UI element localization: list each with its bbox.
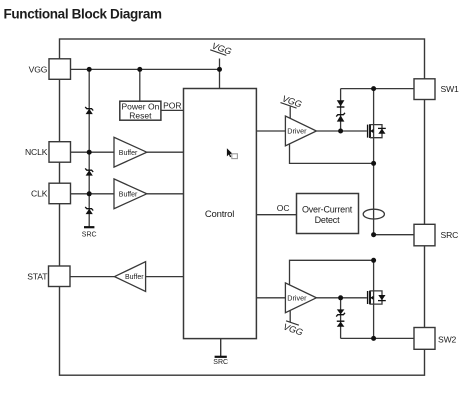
wire bottom clamp diode branch [340, 298, 342, 339]
svg-text:SRC: SRC [213, 359, 228, 366]
wire Control to buffer B3 [146, 276, 184, 278]
wire CLK to buffer B2 [71, 193, 115, 195]
svg-text:Detect: Detect [315, 215, 341, 225]
svg-text:CLK: CLK [31, 189, 48, 199]
wire D2 output to Q2 gate [316, 297, 367, 299]
svg-text:VGG: VGG [282, 322, 304, 338]
svg-text:SRC: SRC [441, 230, 459, 240]
svg-text:NCLK: NCLK [25, 147, 48, 157]
wire POR line [161, 109, 184, 111]
node SW2 rail junction [371, 336, 376, 341]
wire left zener chain vertical [88, 69, 90, 227]
svg-text:SW1: SW1 [441, 84, 460, 94]
zener Z1 [85, 107, 93, 114]
buffer B3 [115, 262, 146, 292]
node SW1 rail junction [371, 86, 376, 91]
node SRC rail junction [371, 232, 376, 237]
wire D2 feedback to source rail [290, 260, 374, 284]
svg-text:Buffer: Buffer [119, 191, 138, 198]
node CLK-zener junction [87, 191, 92, 196]
node D2 gate clamp junction [338, 295, 343, 300]
diode D4 bottom clamp lower [337, 321, 345, 327]
power-on-reset U2 [120, 101, 161, 120]
net VGG label above D1 [280, 93, 303, 109]
wire POR box stub [139, 69, 141, 101]
pin SRC [414, 224, 458, 246]
current sensor ellipse [363, 209, 384, 219]
svg-text:Control: Control [205, 209, 234, 220]
wire Q2 source-drain vertical [373, 260, 375, 338]
wire SW2 rail [341, 337, 415, 339]
net VGG label below D2 [282, 321, 305, 338]
svg-text:Over-Current: Over-Current [302, 204, 353, 214]
ground SRC under control [213, 339, 228, 366]
node D1 gate clamp junction [338, 129, 343, 134]
wire VGG stub below D2 [289, 311, 291, 322]
wire NCLK to buffer B1 [71, 151, 115, 153]
node VGG label junction [217, 67, 222, 72]
wire Control to driver D2 input [256, 297, 285, 299]
wire VGG label stub to Control [219, 59, 221, 89]
svg-text:SW2: SW2 [438, 334, 457, 344]
node NCLK-zener junction [87, 150, 92, 155]
over-current detect U3 [297, 194, 359, 234]
node VGG-POR junction [137, 67, 142, 72]
chip boundary frame [60, 39, 425, 375]
wire VGG net horizontal [71, 68, 220, 70]
wire Control to driver D1 input [256, 130, 285, 132]
svg-text:Functional Block Diagram: Functional Block Diagram [4, 7, 162, 22]
zener Z3 [85, 207, 93, 214]
driver D2 [285, 283, 316, 313]
svg-text:Buffer: Buffer [119, 150, 138, 157]
svg-text:Driver: Driver [287, 293, 307, 302]
pin VGG [29, 59, 71, 80]
wire VGG stub above D1 [289, 107, 291, 119]
wire top clamp diode branch [340, 89, 342, 131]
zener Z5 bottom clamp upper [336, 309, 345, 316]
svg-text:POR: POR [163, 101, 181, 111]
zener Z4 top clamp lower [336, 113, 345, 122]
pin STAT [27, 266, 70, 287]
svg-text:STAT: STAT [27, 272, 48, 282]
buffer B1 [114, 137, 147, 167]
wire Q1 drain-source vertical [373, 89, 375, 235]
node Q2 source junction [371, 258, 376, 263]
wire OC line Control to Over-Current Detect [256, 214, 296, 216]
pin NCLK [25, 142, 71, 163]
buffer B2 [114, 179, 147, 209]
wire B2 output to Control [147, 193, 184, 195]
control block U1 [184, 89, 257, 339]
svg-text:VGG: VGG [29, 64, 48, 74]
wire D1 output to Q1 gate [316, 130, 367, 132]
diode D3 top clamp upper [337, 100, 345, 107]
net VGG label top center [210, 41, 233, 57]
wire SW1 drain rail [341, 88, 414, 90]
svg-text:OC: OC [277, 203, 290, 213]
zener Z2 [85, 168, 93, 175]
mouse cursor [227, 148, 238, 158]
wire B3 output to STAT [70, 276, 115, 278]
svg-text:Buffer: Buffer [125, 274, 144, 281]
wire B1 output to Control [147, 151, 184, 153]
pin SW1 [414, 79, 459, 100]
node VGG-zener junction [87, 67, 92, 72]
wire SRC rail [374, 234, 414, 236]
driver D1 [285, 116, 316, 146]
svg-text:SRC: SRC [82, 232, 97, 239]
svg-text:Reset: Reset [129, 111, 152, 121]
node Q1 source junction [371, 161, 376, 166]
svg-text:Driver: Driver [287, 127, 307, 136]
ground SRC left chain [82, 227, 97, 238]
transistor Q1 [368, 124, 386, 138]
pin SW2 [414, 328, 457, 350]
wire D1 feedback to source rail [290, 144, 374, 164]
pin CLK [31, 183, 70, 204]
transistor Q2 [368, 291, 386, 305]
